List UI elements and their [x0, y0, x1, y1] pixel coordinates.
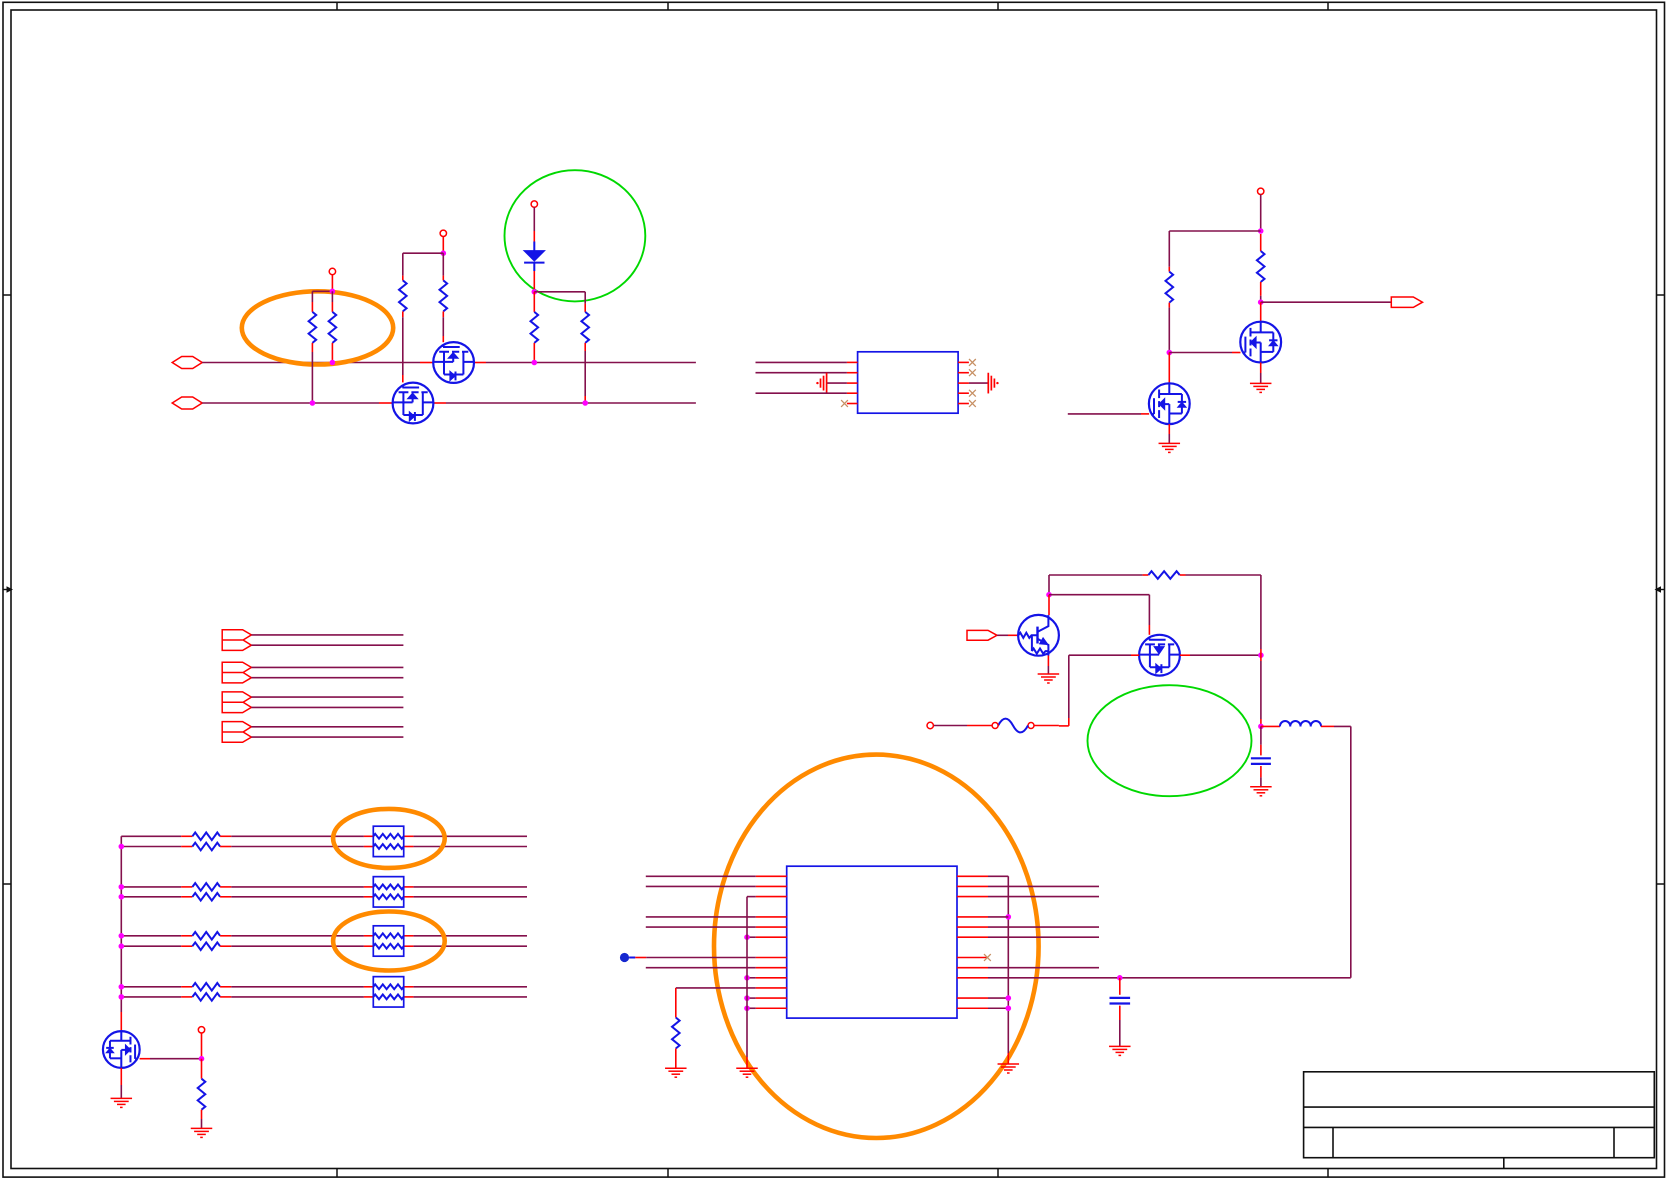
- power ground symbol right of U1: [987, 373, 989, 394]
- wire U2 left row4: [646, 916, 756, 918]
- junction bus left row9: [744, 975, 750, 981]
- ground bus left: [736, 1067, 758, 1069]
- transistor Q5 npn digital: [1018, 615, 1059, 656]
- wire U2 left row6 to bus: [747, 936, 756, 938]
- junction bus row 3a: [119, 933, 125, 939]
- junction top-right node: [1258, 228, 1264, 234]
- resistor row 3a: [121, 935, 181, 937]
- terminal VT3: [531, 201, 537, 207]
- junction output node: [1258, 299, 1264, 305]
- wire U2 left row8: [646, 967, 756, 969]
- wire Q6 drain right: [1180, 654, 1190, 656]
- wire K4 line b: [251, 736, 403, 738]
- resistor R5: [533, 292, 535, 312]
- connector J2 hexagon input: [172, 397, 202, 409]
- orange ellipse highlight 2: [333, 809, 445, 868]
- wire K3 line a: [251, 696, 403, 698]
- wire VT4 down: [1260, 195, 1262, 232]
- title block lower divider: [1503, 1158, 1505, 1169]
- transistor Q3 n-mosfet: [1149, 383, 1190, 424]
- connector K4 double chevron: [222, 722, 251, 743]
- terminal VT6: [198, 1027, 204, 1033]
- junction bus row 4a: [119, 984, 125, 990]
- wire Q7 source down: [120, 1068, 122, 1085]
- border tick right 1: [1657, 294, 1665, 296]
- wire U2 left row5: [646, 926, 756, 928]
- no-connect X U1 right pin2: [969, 369, 976, 376]
- wire R7 to gate node: [1168, 308, 1170, 353]
- border tick top 3: [997, 2, 999, 10]
- wire base node to Q5 collector: [1048, 595, 1050, 615]
- junction bus row 4b: [119, 994, 125, 1000]
- junction bus2 row4: [1006, 914, 1012, 920]
- wire U2 left row11 to bus: [747, 997, 756, 999]
- transistor Q7 n-mosfet: [103, 1031, 140, 1068]
- wire node to left branch: [1169, 230, 1260, 232]
- transistor Q1 p-mosfet: [433, 342, 474, 383]
- wire L1 to output corner: [1334, 725, 1351, 727]
- wire U2 left row10 corner: [676, 987, 756, 989]
- junction R2-net1: [330, 360, 336, 366]
- no-connect X U2 right row7: [984, 954, 991, 961]
- capacitor C1: [1260, 726, 1262, 744]
- wire U2 right row6: [988, 936, 1099, 938]
- inductor L1: [1261, 725, 1280, 727]
- junction switch node: [1258, 652, 1264, 658]
- no-connect X U1 right pin5: [969, 400, 976, 407]
- title block cell divider right: [1613, 1127, 1615, 1157]
- border tick top 1: [336, 2, 338, 10]
- wire U1 pin2 left: [756, 372, 847, 374]
- wire Q7 gate right: [140, 1058, 150, 1060]
- wire U2 right row9 output: [988, 977, 1351, 979]
- wire K2 line b: [251, 677, 403, 679]
- wire K3 line b: [251, 706, 403, 708]
- resistor R6: [584, 292, 586, 304]
- connector K1 double chevron: [222, 630, 251, 651]
- wire R5-R6 top link: [534, 291, 585, 293]
- wire R1-R2 top link: [312, 290, 332, 292]
- wire U2 left row3 to bus: [747, 896, 756, 898]
- wire output node to Q4 drain: [1260, 302, 1262, 322]
- resistor R2: [331, 291, 333, 302]
- wire Q5 emitter down: [1047, 656, 1049, 667]
- wire U2 left row9 to bus: [747, 977, 756, 979]
- wire K4 line a: [251, 726, 403, 728]
- no-connect X U1 right pin1: [969, 359, 976, 366]
- resistor row 2b: [121, 896, 181, 898]
- resistor array RN2: [373, 877, 403, 907]
- wire U2 right row3: [988, 896, 1099, 898]
- wire U1 pin4 left: [756, 392, 847, 394]
- wire U2 right row2: [988, 885, 1099, 887]
- resistor row 4a: [121, 986, 181, 988]
- resistor R10: [201, 1059, 203, 1079]
- resistor R4: [442, 253, 444, 275]
- wire VT6 down: [201, 1033, 203, 1059]
- ground Q5: [1038, 673, 1060, 675]
- junction C2 tap: [1117, 975, 1123, 981]
- wire switch vertical: [1260, 575, 1262, 649]
- wire D1 to junction: [533, 271, 535, 292]
- node terminal blue dot: [620, 953, 629, 962]
- wire R4 to Q1 gate: [442, 317, 444, 336]
- wire R1 bottom to net2: [311, 352, 313, 403]
- wire U2 left row12 to bus: [747, 1007, 756, 1009]
- wire U1 pin1 left: [756, 361, 847, 363]
- border centre arrow left: [3, 589, 8, 591]
- junction bus row 2b: [119, 894, 125, 900]
- IC U1 body: [858, 352, 959, 413]
- wire U1 pin3 left: [827, 382, 847, 384]
- junction bus left row6: [744, 934, 750, 940]
- junction R1-net2: [310, 400, 316, 406]
- transistor Q6 p-mosfet: [1139, 635, 1180, 676]
- power ground symbol left of U1: [826, 373, 828, 394]
- terminal VT5: [927, 722, 933, 728]
- resistor R9 feedback: [1049, 574, 1143, 576]
- ground R10: [191, 1127, 213, 1129]
- resistor array RN3: [373, 926, 403, 956]
- ground Q4: [1250, 382, 1272, 384]
- terminal VT2: [440, 230, 446, 236]
- orange ellipse highlight 4: [714, 755, 1039, 1138]
- wire U2 right row4: [988, 916, 1008, 918]
- wire Q4 source down: [1260, 363, 1262, 374]
- wire U2 left row2: [646, 885, 756, 887]
- wire feedback left down: [1048, 575, 1050, 595]
- green circle highlight 2: [1088, 685, 1252, 796]
- transistor Q2 p-mosfet: [393, 383, 434, 424]
- no-connect X U1 right pin4: [969, 390, 976, 397]
- capacitor C2: [1119, 978, 1121, 995]
- resistor R3: [402, 253, 404, 275]
- wire Q3 gate: [1068, 413, 1141, 415]
- junction base node: [1046, 592, 1052, 598]
- wire U2 right row5: [988, 926, 1099, 928]
- wire VT3 to D1: [533, 207, 535, 231]
- wire fuse to terminal: [967, 725, 992, 727]
- connector J1 hexagon input: [172, 357, 202, 369]
- junction D1 bottom: [532, 289, 538, 295]
- ground bus right: [998, 1063, 1020, 1065]
- IC U2 left pins: [756, 875, 787, 877]
- wire U2 right row1 to bus2: [988, 875, 1008, 877]
- wire net2 horizontal: [202, 402, 379, 404]
- resistor row 1b: [121, 846, 181, 848]
- wire K1 line b: [251, 644, 403, 646]
- junction bus row 1b: [119, 844, 125, 850]
- resistor R11: [675, 988, 677, 1018]
- border tick right 2: [1657, 883, 1665, 885]
- wire Q6 source left: [1131, 654, 1139, 656]
- connector input arrow: [967, 630, 997, 640]
- wire U2 right row8: [988, 967, 1099, 969]
- bus vertical left: [120, 836, 122, 1012]
- orange ellipse highlight 1: [242, 291, 393, 364]
- junction Q7 gate node: [199, 1056, 205, 1062]
- title block row line 1: [1304, 1106, 1655, 1108]
- junction LC node: [1258, 724, 1264, 730]
- bus left vertical: [746, 897, 748, 1057]
- orange ellipse highlight 3: [333, 912, 445, 971]
- title block outline: [1304, 1072, 1655, 1158]
- junction bus row 2a: [119, 884, 125, 890]
- IC U1 right pins: [958, 361, 969, 363]
- no-connect X U1 pin5 left: [841, 400, 848, 407]
- resistor array RN4: [373, 977, 403, 1007]
- ground Q3: [1159, 442, 1181, 444]
- wire blue dot to U2 row7: [629, 957, 635, 959]
- wire U1 pin3 right: [969, 382, 988, 384]
- wire R6 bottom to net2: [584, 351, 586, 396]
- IC U1 left pins: [847, 361, 858, 363]
- wire K2 line a: [251, 666, 403, 668]
- border tick top 2: [667, 2, 669, 10]
- resistor row 4b: [121, 996, 181, 998]
- border tick bottom 4: [1327, 1169, 1329, 1178]
- connector K2 double chevron: [222, 662, 251, 683]
- ground C2: [1109, 1045, 1131, 1047]
- border tick bottom 3: [997, 1169, 999, 1178]
- border tick top 4: [1327, 2, 1329, 10]
- wire U2 left row1: [646, 875, 756, 877]
- junction bus left row11: [744, 995, 750, 1001]
- connector output arrow: [1391, 297, 1422, 307]
- title block row line 2: [1304, 1126, 1655, 1128]
- resistor array RN1: [373, 826, 403, 856]
- junction gate node: [1167, 350, 1173, 356]
- border tick left 1: [3, 294, 11, 296]
- resistor R7: [1168, 231, 1170, 267]
- IC U2 right pins: [957, 875, 988, 877]
- resistor R8: [1260, 234, 1262, 251]
- border tick bottom 2: [667, 1169, 669, 1178]
- junction bus2 row12: [1006, 1005, 1012, 1011]
- border centre arrow right: [1660, 589, 1665, 591]
- border tick bottom 1: [336, 1169, 338, 1178]
- junction bus row 3b: [119, 943, 125, 949]
- ground Q7: [111, 1097, 133, 1099]
- ground R11: [665, 1067, 687, 1069]
- title block cell divider left: [1332, 1127, 1334, 1157]
- wire U2 right row11: [988, 997, 1008, 999]
- junction R5-net1: [532, 360, 538, 366]
- wire VT1 down: [331, 275, 333, 292]
- junction R6-net2: [582, 400, 588, 406]
- junction bus2 row11: [1006, 995, 1012, 1001]
- resistor row 2a: [121, 886, 181, 888]
- junction bus left row12: [744, 1005, 750, 1011]
- wire U2 right row12: [988, 1007, 1008, 1009]
- wire Q4 gate: [1169, 352, 1232, 354]
- bus right vertical: [1007, 876, 1009, 1053]
- diode D1: [533, 242, 535, 251]
- wire Q3 source down: [1168, 424, 1170, 434]
- wire K1 line a: [251, 634, 403, 636]
- transistor Q4 n-mosfet: [1240, 322, 1281, 363]
- wire input to Q5 base: [997, 634, 1008, 636]
- resistor R1: [311, 291, 313, 302]
- IC U2 body: [787, 866, 957, 1018]
- border tick left 2: [3, 883, 11, 885]
- wire gate run to Q6: [1049, 594, 1149, 596]
- resistor row 1a: [121, 835, 181, 837]
- wire gate node to Q3 drain: [1168, 353, 1170, 384]
- junction R2 top: [330, 289, 336, 295]
- green circle highlight 1: [505, 170, 646, 301]
- wire R3-R4 top link: [403, 252, 444, 254]
- fuse F1: [1028, 723, 1034, 729]
- wire VT2 down: [442, 237, 444, 254]
- wire source corner down: [1068, 655, 1070, 718]
- ground C1: [1250, 786, 1272, 788]
- terminal VT4: [1258, 188, 1264, 194]
- connector K3 double chevron: [222, 692, 251, 713]
- wire output: [1261, 301, 1392, 303]
- terminal VT1: [329, 268, 335, 274]
- resistor row 3b: [121, 945, 181, 947]
- wire net1 horizontal: [202, 362, 420, 364]
- junction R4 top: [441, 250, 447, 256]
- wire R3 to Q2 gate: [402, 317, 404, 375]
- wire to fuse: [1059, 725, 1069, 727]
